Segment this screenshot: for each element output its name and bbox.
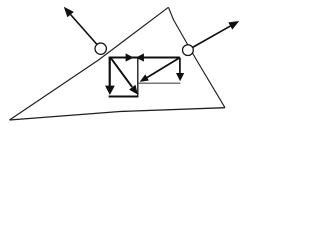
triangle left edge (apex to bottom-left vertex, passes under left node) (10, 7, 169, 120)
wire: mid vertical line (137, 58, 139, 96)
arrow out of right node (up-right), shaft (192, 26, 230, 48)
wire: gray horizontal line (138, 82, 180, 84)
wire: left vertical arrow (down) (109, 57, 111, 87)
arrowhead left-pointing on top line (136, 53, 144, 61)
triangle right edge (apex to bottom-right vertex, passes through right node) (168, 7, 225, 107)
arrow out of left node (up-left), shaft (71, 15, 97, 45)
wire: bottom horizontal of inner square (109, 96, 139, 98)
node circle left (95, 43, 106, 54)
arrowhead of up-left arrow (64, 7, 74, 17)
arrowhead right-pointing on top line (126, 53, 134, 61)
wire: top horizontal line of inner figure (110, 57, 180, 59)
node circle right (183, 45, 194, 56)
wire: right vertical arrow (down) (179, 58, 181, 75)
arrowhead of up-right arrow (228, 21, 239, 30)
triangle bottom edge (10, 108, 226, 120)
wire: square diagonal arrow (down-right) (110, 57, 132, 87)
wire: diagonal arrow from right corner (down-left) (147, 58, 180, 78)
